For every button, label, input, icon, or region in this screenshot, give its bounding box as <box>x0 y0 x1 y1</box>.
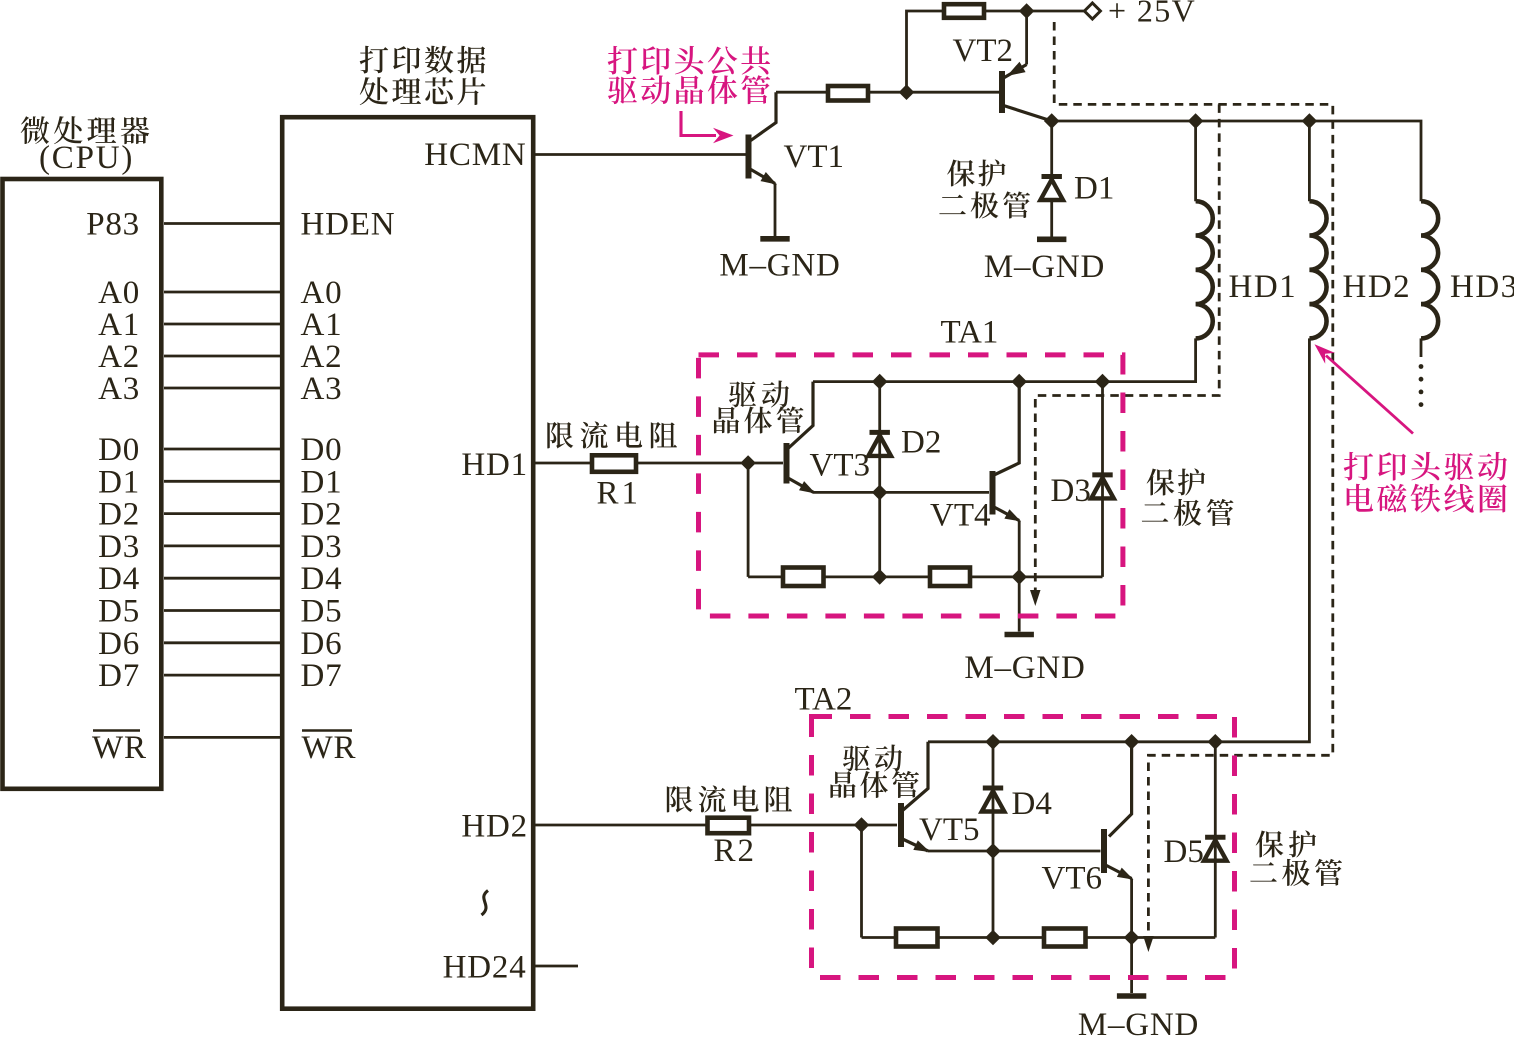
WR overline CPU <box>93 729 140 732</box>
TA2 dashed box <box>812 717 1235 978</box>
inductor coil HD3 <box>1421 201 1438 338</box>
junction D2 emitter line <box>872 485 888 501</box>
wire D2 CPU to chip <box>164 512 281 515</box>
svg-text:VT6: VT6 <box>1042 861 1103 897</box>
diode D1 <box>1040 177 1063 201</box>
junction TA1 rail VT4 <box>1011 374 1027 390</box>
pink label common-drive line1 <box>608 46 770 75</box>
wire D5 CPU to chip <box>164 609 281 612</box>
label protect diode D1 line1 <box>947 159 1005 186</box>
wire D1 CPU to chip <box>164 480 281 483</box>
wire HD24 stub <box>536 965 579 968</box>
resistor +25V rail (unlabeled) <box>944 4 984 18</box>
wire VT5 collector lead <box>903 742 929 811</box>
dashed select line to TA2 <box>1054 22 1333 952</box>
inductor coil HD1 <box>1196 201 1213 338</box>
label protect diode D3 line2 <box>1142 499 1234 526</box>
wire VT2 emitter to +25V rail <box>1025 11 1028 65</box>
svg-text:D5: D5 <box>301 594 343 630</box>
svg-text:D3: D3 <box>1051 473 1091 509</box>
svg-text:VT5: VT5 <box>919 812 980 848</box>
wire WR CPU to chip <box>164 736 281 739</box>
label protect diode D5 line1 <box>1256 830 1316 857</box>
label current-limit resistor R1 <box>547 421 677 448</box>
junction VT2 base node <box>899 84 915 100</box>
resistor VT1 collector (unlabeled) <box>828 86 868 101</box>
label current-limit resistor R2 <box>667 785 792 812</box>
wire A1 CPU to chip <box>164 323 281 326</box>
wire coil HD3 stub <box>1420 338 1423 357</box>
junction TA1 rail D2 <box>872 374 888 390</box>
junction TA2 rail VT6 <box>1124 734 1140 750</box>
junction TA1 bottom D2 <box>872 569 888 585</box>
svg-text:D3: D3 <box>98 529 140 565</box>
resistor R2 <box>708 818 750 834</box>
transistor VT2 emitter <box>1004 62 1027 78</box>
diode D5 <box>1204 837 1227 861</box>
label drive transistor TA2 line1 <box>843 745 902 772</box>
transistor VT3 emitter <box>788 478 816 494</box>
svg-text:M–GND: M–GND <box>1078 1007 1199 1037</box>
svg-text:D2: D2 <box>98 497 140 533</box>
svg-text:R2: R2 <box>714 833 757 869</box>
dashed select line to TA1 <box>1030 104 1219 606</box>
svg-text:TA2: TA2 <box>795 682 853 718</box>
label protect diode D3 line1 <box>1147 468 1205 495</box>
junction rail HD1 <box>1188 113 1204 129</box>
wire rail to coil HD1 <box>1194 121 1197 201</box>
ground M-GND TA2 <box>1117 993 1146 999</box>
svg-text:HCMN: HCMN <box>424 137 526 173</box>
svg-text:D6: D6 <box>98 626 140 662</box>
label drive transistor TA1 line2 <box>714 406 804 433</box>
svg-text:D4: D4 <box>301 561 343 597</box>
wire VT4 emitter down <box>1018 521 1021 577</box>
wire TA2 base node down <box>860 825 863 938</box>
ground M-GND TA1 <box>1005 632 1034 638</box>
svg-text:A3: A3 <box>301 371 343 407</box>
pink annotation arrow to VT1 <box>681 111 734 143</box>
svg-text:D1: D1 <box>98 464 140 500</box>
tilde ellipsis on chip pins <box>482 891 489 916</box>
svg-text:HD3: HD3 <box>1450 269 1514 305</box>
wire D3 branch <box>1101 382 1104 577</box>
svg-text:WR: WR <box>92 730 147 766</box>
wire D6 CPU to chip <box>164 641 281 644</box>
wire to diode D1 <box>1050 121 1053 175</box>
inductor coil HD2 <box>1309 201 1326 338</box>
svg-text:D1: D1 <box>301 464 343 500</box>
wire TA1 to M-GND <box>1018 577 1021 632</box>
junction +25V rail <box>1019 3 1035 19</box>
label protect diode D5 line2 <box>1250 859 1342 886</box>
pink annotation arrow to coil HD2 <box>1315 344 1414 433</box>
transistor VT6 base bar <box>1101 829 1107 873</box>
transistor VT4 base bar <box>990 471 996 515</box>
svg-text:P83: P83 <box>86 207 140 243</box>
coil HD3 continuation dots <box>1419 364 1424 407</box>
wire +25V top rail <box>907 11 1085 92</box>
wire coil HD1 to TA1 rail <box>813 338 1196 381</box>
wire A2 CPU to chip <box>164 355 281 358</box>
+25V terminal diamond <box>1084 3 1100 19</box>
svg-text:D3: D3 <box>301 529 343 565</box>
junction VT5 base node <box>854 817 870 833</box>
svg-text:A2: A2 <box>98 339 140 375</box>
TA1 dashed box <box>699 355 1123 616</box>
junction TA2 rail D4 <box>985 734 1001 750</box>
wire VT3 emitter to VT4 base <box>813 491 989 494</box>
label drive transistor TA1 line1 <box>729 381 789 408</box>
pink label head-coil line2 <box>1347 484 1507 513</box>
wire A0 CPU to chip <box>164 291 281 294</box>
label CPU title line1 <box>21 116 150 144</box>
wire HD1 through R1 to VT3 base <box>536 462 784 465</box>
svg-text:A0: A0 <box>301 275 343 311</box>
label protect diode D1 line2 <box>939 191 1030 218</box>
pink label head-coil line1 <box>1344 452 1507 481</box>
ground M-GND D1 <box>1037 237 1066 243</box>
transistor VT1 base bar <box>746 135 752 179</box>
svg-text:D0: D0 <box>301 432 343 468</box>
diode D3 <box>1091 475 1114 499</box>
svg-text:D6: D6 <box>301 626 343 662</box>
resistor R1 <box>592 455 636 472</box>
svg-text:HD24: HD24 <box>443 950 527 986</box>
wire HD2 through R2 to VT5 base <box>536 824 898 827</box>
label chip title line2 <box>360 77 486 105</box>
junction TA2 bottom D4 <box>985 930 1001 946</box>
svg-text:HD2: HD2 <box>1343 269 1412 305</box>
wire D5 branch <box>1214 742 1217 938</box>
junction TA2 bottom VT6 <box>1124 930 1140 946</box>
svg-text:D4: D4 <box>1012 786 1052 822</box>
svg-text:D0: D0 <box>98 432 140 468</box>
svg-text:D1: D1 <box>1074 171 1114 207</box>
wire HCMN to VT1 base <box>536 153 749 156</box>
wire TA1 base node down <box>747 463 750 577</box>
junction TA1 bottom VT4 <box>1011 569 1027 585</box>
svg-text:A3: A3 <box>98 371 140 407</box>
svg-text:D7: D7 <box>98 658 140 694</box>
diode D4 <box>982 788 1005 812</box>
svg-text:HD1: HD1 <box>461 447 528 483</box>
junction TA1 rail D3 <box>1095 374 1111 390</box>
svg-text:HD2: HD2 <box>461 809 528 845</box>
svg-text:D5: D5 <box>1164 834 1204 870</box>
svg-text:M–GND: M–GND <box>964 650 1085 686</box>
svg-text:D5: D5 <box>98 594 140 630</box>
wire TA2 bottom rail <box>862 936 1216 939</box>
wire VT4 collector lead <box>994 382 1019 475</box>
junction VT2 collector node <box>1044 113 1060 129</box>
wire TA1 bottom rail <box>748 576 1102 579</box>
junction VT3 base node <box>740 455 756 471</box>
wire D0 CPU to chip <box>164 448 281 451</box>
svg-text:VT1: VT1 <box>784 139 845 175</box>
wire VT6 collector lead <box>1109 742 1132 837</box>
svg-text:TA1: TA1 <box>941 315 999 351</box>
WR overline chip <box>302 729 352 732</box>
svg-text:A1: A1 <box>98 307 140 343</box>
wire D3 CPU to chip <box>164 545 281 548</box>
svg-text:HD1: HD1 <box>1229 269 1298 305</box>
svg-text:VT3: VT3 <box>810 448 871 484</box>
svg-text:VT4: VT4 <box>930 498 991 534</box>
wire TA2 to M-GND <box>1130 938 1133 994</box>
svg-text:D4: D4 <box>98 561 140 597</box>
diode D2 <box>868 432 891 456</box>
wire coil HD2 to TA2 rail <box>928 338 1309 741</box>
transistor VT2 collector <box>1004 106 1052 122</box>
svg-text:D2: D2 <box>301 497 343 533</box>
wire VT3 collector lead <box>788 382 813 449</box>
svg-text:+ 25V: + 25V <box>1108 0 1196 29</box>
wire VT6 emitter down <box>1130 879 1133 938</box>
label drive transistor TA2 line2 <box>830 771 919 798</box>
resistor TA1 right (unlabeled) <box>930 568 970 587</box>
svg-text:R1: R1 <box>597 476 642 512</box>
resistor TA2 right (unlabeled) <box>1044 929 1086 947</box>
svg-text:HDEN: HDEN <box>301 207 396 243</box>
wire VT1 collector to VT2 base <box>776 91 1002 94</box>
wire VT1 collector lead <box>750 92 776 141</box>
svg-text:M–GND: M–GND <box>984 249 1105 285</box>
svg-text:A0: A0 <box>98 275 140 311</box>
wire rail to coil HD2 <box>1308 121 1311 201</box>
wire VT1 emitter to ground <box>774 184 777 237</box>
svg-text:(CPU): (CPU) <box>39 140 134 176</box>
transistor VT5 base bar <box>898 803 904 847</box>
transistor VT6 emitter <box>1106 865 1134 880</box>
svg-text:D2: D2 <box>901 425 941 461</box>
junction TA2 rail D5 <box>1208 734 1224 750</box>
CPU block box <box>3 179 162 789</box>
svg-text:VT2: VT2 <box>953 33 1014 69</box>
svg-text:A1: A1 <box>301 307 343 343</box>
junction rail HD2 <box>1302 113 1318 129</box>
wire D4 branch <box>992 742 995 938</box>
wire D7 CPU to chip <box>164 674 281 677</box>
junction D4 emitter line <box>985 843 1001 859</box>
svg-text:WR: WR <box>302 730 357 766</box>
resistor TA2 left (unlabeled) <box>896 929 938 947</box>
ground M-GND VT1 <box>760 236 789 242</box>
svg-text:D7: D7 <box>301 658 343 694</box>
wire D1 to ground <box>1050 198 1053 237</box>
wire VT5 emitter to VT6 base <box>928 850 1101 853</box>
transistor VT1 emitter <box>750 169 777 185</box>
wire D2 branch <box>878 382 881 577</box>
transistor VT4 emitter <box>994 507 1021 522</box>
svg-text:A2: A2 <box>301 339 343 375</box>
transistor VT3 base bar <box>784 443 790 484</box>
wire +25V feed rail to coils <box>1052 121 1421 201</box>
wire P83/HDEN CPU to chip <box>164 222 281 225</box>
wire A3 CPU to chip <box>164 387 281 390</box>
pink label common-drive line2 <box>608 75 770 104</box>
wire D4 CPU to chip <box>164 577 281 580</box>
label chip title line1 <box>360 46 486 74</box>
resistor TA1 left (unlabeled) <box>783 568 824 587</box>
printer-data chip box <box>282 117 533 1009</box>
svg-text:M–GND: M–GND <box>719 248 840 284</box>
transistor VT5 emitter <box>903 839 931 852</box>
transistor VT2 base bar <box>999 71 1005 113</box>
